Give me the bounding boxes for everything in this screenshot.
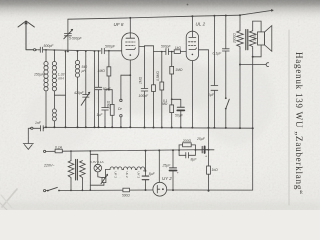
node L1 top <box>45 49 47 51</box>
detector loop top bar <box>145 45 154 48</box>
svg-text:mH: mH <box>58 77 64 81</box>
capacitor 1uF <box>104 90 106 128</box>
stub y=89.7 <box>105 89 112 91</box>
primary line down to bus <box>239 49 241 129</box>
svg-text:MΩ: MΩ <box>162 102 168 106</box>
pot 0,5M v161.8 <box>161 52 163 128</box>
lamp loop <box>89 150 91 152</box>
cap 25uF after rectifier <box>172 149 174 151</box>
svg-text:500pF: 500pF <box>161 45 172 49</box>
variable capacitor C-var 5-500pF <box>67 51 69 53</box>
svg-text:500Ω: 500Ω <box>122 194 130 198</box>
wire H3 <box>154 51 166 53</box>
heater chain to mains <box>145 150 147 152</box>
cap 1nF to ground <box>33 126 44 131</box>
switch S2 <box>225 97 227 99</box>
grid leak v171.7 <box>171 51 173 53</box>
coil L2 <box>53 50 55 61</box>
cathode bypass 50uF <box>171 98 173 100</box>
resistor 1k <box>174 50 180 54</box>
capacitor 8uF heater <box>142 176 149 180</box>
antenna <box>18 21 34 50</box>
node L2 top <box>54 49 56 51</box>
svg-text:1MΩ: 1MΩ <box>175 68 183 72</box>
resistor 20k <box>111 90 113 128</box>
svg-text:UL 2: UL 2 <box>125 172 129 179</box>
svg-text:100pF: 100pF <box>139 94 150 98</box>
svg-text:UF 8: UF 8 <box>114 22 124 27</box>
main bus <box>44 126 253 129</box>
svg-text:+: + <box>205 155 207 159</box>
svg-text:UL 2: UL 2 <box>196 22 206 27</box>
coil L1 <box>45 50 47 62</box>
svg-text:25µF: 25µF <box>196 137 206 141</box>
svg-text:0,5MΩ: 0,5MΩ <box>156 71 160 81</box>
svg-text:1µF: 1µF <box>208 93 215 97</box>
wire L2 bottom to small coil <box>54 91 65 109</box>
v 214.4 with 1uF cap <box>213 15 215 17</box>
svg-text:150µH: 150µH <box>34 73 45 77</box>
svg-text:500pF: 500pF <box>44 44 55 48</box>
dial lamp <box>94 164 102 172</box>
coil L3 osc <box>77 50 79 52</box>
smudge bottom left <box>2 189 17 207</box>
wire L1 bottom to bus <box>45 91 47 127</box>
external speaker line <box>239 64 241 66</box>
capacitor 50pF <box>98 50 100 52</box>
resistor on bottom wire <box>123 188 130 192</box>
svg-text:0,1A: 0,1A <box>55 145 63 149</box>
speaker LS <box>253 21 261 32</box>
svg-text:8µF: 8µF <box>191 157 198 161</box>
resistor 1k to bottom <box>208 149 210 151</box>
page edge line <box>288 30 290 205</box>
wire antenna row to grid cap <box>45 50 101 51</box>
tube U1 cathode lead <box>129 60 131 127</box>
small fleck top <box>187 4 189 6</box>
wire v_a <box>65 51 67 53</box>
svg-text:2000Ω: 2000Ω <box>232 33 236 44</box>
fuse <box>55 149 62 153</box>
svg-text:8µF: 8µF <box>149 172 156 176</box>
v208.5 bus to mains wire <box>208 128 210 150</box>
output transformer T2 primary <box>239 14 241 16</box>
transformer core lines <box>76 159 78 180</box>
svg-text:200Ω: 200Ω <box>182 139 192 143</box>
svg-text:1µF: 1µF <box>97 113 104 117</box>
wire v_b <box>94 50 96 52</box>
speaker return line <box>252 49 254 191</box>
regulator arrow <box>101 175 107 184</box>
feedback line to terminal <box>240 10 273 15</box>
svg-text:1MΩ: 1MΩ <box>139 76 143 84</box>
svg-text:500pF: 500pF <box>105 45 116 49</box>
v 225.8 with 0,1uF cap and switch <box>225 15 227 17</box>
capacitor C-coup 500pF <box>166 49 174 55</box>
svg-text:50pF: 50pF <box>103 87 112 91</box>
svg-text:1MΩ: 1MΩ <box>98 69 106 73</box>
dropper resistor zig1 <box>70 150 72 152</box>
coil L4 small <box>52 109 56 121</box>
svg-text:+: + <box>177 171 179 175</box>
svg-text:UY 2: UY 2 <box>137 172 141 179</box>
ground <box>27 128 29 143</box>
mains terminal bottom + switch S1 <box>44 190 46 192</box>
svg-text:25µF: 25µF <box>162 163 172 167</box>
capacitor C-ant 500pF <box>38 47 45 52</box>
transformer core <box>246 30 248 50</box>
bottom wire <box>59 189 253 192</box>
capacitor C-grid 500pF <box>102 48 122 53</box>
output transformer secondary <box>252 21 254 31</box>
v 153.5 with box <box>153 46 155 128</box>
UY2 anode lead <box>158 149 160 151</box>
svg-text:220V~: 220V~ <box>43 163 55 167</box>
svg-text:20kΩ: 20kΩ <box>106 100 110 109</box>
svg-text:1kΩ: 1kΩ <box>175 46 182 50</box>
filter loop R/C <box>178 149 180 151</box>
svg-text:0,1µF: 0,1µF <box>213 51 223 55</box>
choke Dr <box>120 75 122 127</box>
svg-text:UF 2: UF 2 <box>114 172 118 179</box>
svg-text:1nF: 1nF <box>35 121 42 125</box>
svg-text:UY 2: UY 2 <box>162 176 172 181</box>
top wire H1 <box>68 15 240 19</box>
mains terminal top <box>44 150 46 152</box>
tube U2 cathode lead <box>191 61 193 128</box>
antenna input terminal <box>34 49 36 51</box>
tube U1 screen stub <box>139 46 145 48</box>
svg-text:420pF: 420pF <box>74 91 85 95</box>
resistor box below lamp <box>102 178 106 183</box>
svg-text:5-500pF: 5-500pF <box>69 36 83 40</box>
mains wire y151 <box>62 150 208 152</box>
trimmer capacitor <box>85 50 87 52</box>
heater chain <box>102 170 110 178</box>
resistor R-grid 1M <box>108 50 110 52</box>
svg-text:1kΩ: 1kΩ <box>212 168 219 172</box>
svg-text:50µF: 50µF <box>175 114 184 118</box>
svg-text:Hagenuk 139 WU „Zauberklang“: Hagenuk 139 WU „Zauberklang“ <box>294 52 304 195</box>
electrolytic 25uF series <box>201 146 203 153</box>
winding zig2 <box>80 161 86 179</box>
v 144.5 with 100pF cap <box>144 46 146 128</box>
tube U2 side stub to v208.3 <box>199 50 209 128</box>
svg-text:6,3V 0,1A: 6,3V 0,1A <box>90 160 104 164</box>
